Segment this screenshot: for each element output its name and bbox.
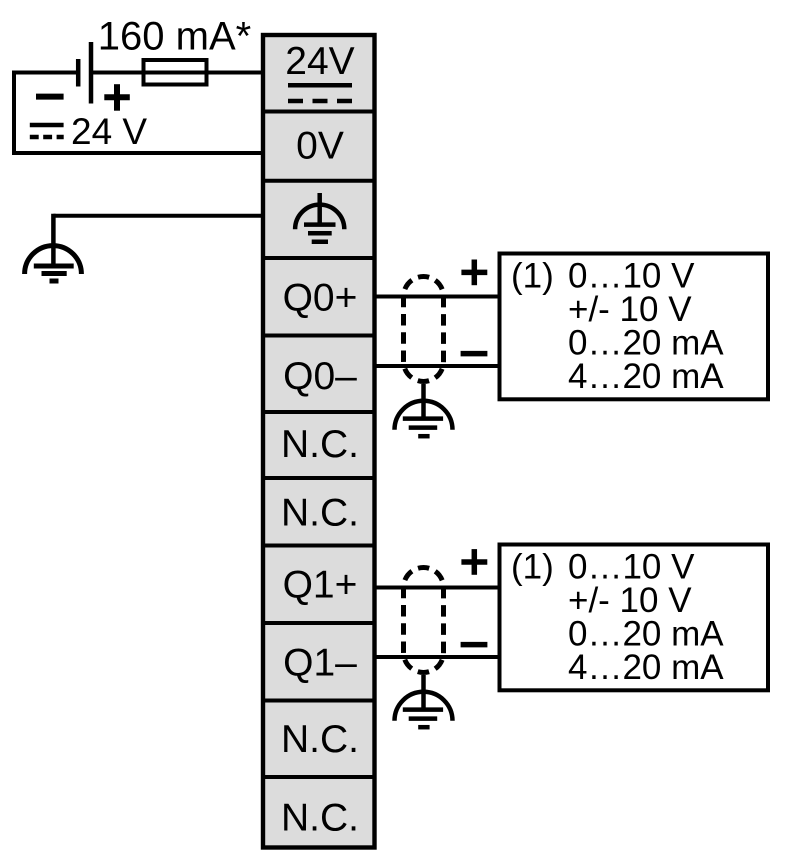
terminal divider 10 [261,775,376,779]
svg-text:(1): (1) [511,257,554,296]
terminal divider 5 [261,410,376,414]
ground shield Q1 [395,692,453,727]
node Q1 plus polarity [461,549,487,575]
terminal divider 7 [261,544,376,548]
wire PE horizontal [53,214,263,218]
svg-text:24V: 24V [285,40,354,83]
wire supply left vertical [12,71,16,156]
device box Q0 text [511,257,724,397]
svg-text:4…20 mA: 4…20 mA [568,648,724,687]
svg-text:Q0+: Q0+ [283,277,358,320]
terminal divider 2 [261,179,376,183]
wire shield Q0 drain [421,384,426,419]
wire 0V return [12,151,263,155]
node Q0 minus polarity [461,351,488,357]
terminal PE earth symbol [295,193,344,242]
svg-text:Q0–: Q0– [283,355,357,398]
battery BT1 [36,42,130,111]
svg-text:24 V: 24 V [71,111,147,152]
fuse F1 [144,60,207,85]
svg-text:4…20 mA: 4…20 mA [568,357,724,396]
svg-text:Q1–: Q1– [283,642,357,685]
svg-text:N.C.: N.C. [281,492,359,535]
device box Q1 text [511,548,724,688]
terminal divider 1 [261,110,376,114]
terminal divider 6 [261,476,376,480]
svg-text:N.C.: N.C. [281,718,359,761]
svg-text:N.C.: N.C. [281,797,359,840]
node Q1 minus polarity [461,642,488,648]
node Q0 plus polarity [461,260,487,286]
svg-text:Q1+: Q1+ [283,564,358,607]
wire Q0- [375,364,500,368]
terminal block body [263,35,375,848]
shield Q1 cable screen [404,568,444,673]
wire Q0+ [375,295,500,299]
wire Q1- [375,655,500,659]
terminal divider 4 [261,334,376,338]
svg-text:160 mA*: 160 mA* [98,15,251,59]
ground shield Q0 [395,401,453,436]
device box Q1 [500,545,769,691]
ground left protective earth [25,246,82,281]
wire 24V supply top [12,71,78,75]
wire PE vertical drop [51,214,56,266]
terminal 24V label [285,40,354,101]
terminal divider 9 [261,699,376,703]
svg-text:N.C.: N.C. [281,423,359,466]
terminal divider 8 [261,621,376,625]
device box Q0 [500,254,769,400]
terminal divider 3 [261,256,376,260]
wire Q1+ [375,586,500,590]
svg-text:(1): (1) [511,548,554,587]
wire shield Q1 drain [421,675,426,710]
shield Q0 cable screen [404,277,444,382]
svg-text:0V: 0V [296,125,344,168]
wire fuse to 24V terminal [91,71,263,75]
battery 24 V label [30,111,148,152]
